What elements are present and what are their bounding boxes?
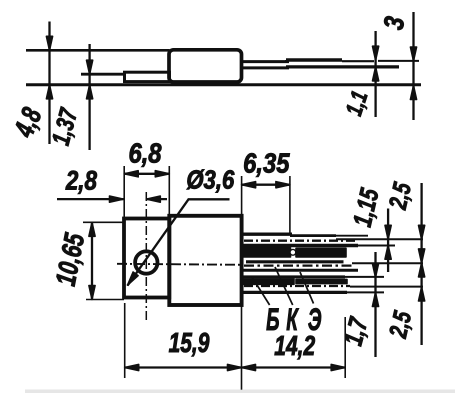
dimension 6,35 <box>242 176 290 233</box>
wire bottom extension line <box>358 245 395 247</box>
dimension 1,7 line <box>372 252 378 357</box>
svg-text:6,8: 6,8 <box>128 137 162 169</box>
svg-text:2,5: 2,5 <box>383 179 417 212</box>
lead 2 bottom line <box>242 269 358 272</box>
svg-text:6,35: 6,35 <box>243 147 290 179</box>
lead 3 bottom line <box>242 291 348 294</box>
svg-text:4,8: 4,8 <box>9 103 49 142</box>
dimension 1,37 line <box>87 44 93 150</box>
dimension 2,8 <box>57 196 167 202</box>
dimension 1,15 line <box>385 209 391 273</box>
svg-text:1,1: 1,1 <box>342 88 373 118</box>
front view: body outline <box>169 216 241 305</box>
horizontal centerline <box>117 264 243 265</box>
lead 2 centerline <box>244 264 352 266</box>
svg-text:15,9: 15,9 <box>169 328 210 359</box>
dimension 2,5 top line <box>419 183 425 345</box>
lead leader Э <box>300 272 314 304</box>
lead 2 centerline extension <box>352 262 423 264</box>
side view: left lead crimp <box>125 72 170 81</box>
side view: bottom seating line <box>26 83 421 86</box>
dimension 1,1 line <box>373 31 379 117</box>
side view: wire top extension line <box>378 60 419 62</box>
wire top extension line <box>336 238 423 240</box>
diameter leader Ø3,6 <box>128 199 230 285</box>
lead 3 flat top line <box>242 275 346 278</box>
lead 2 crimp dot <box>290 249 296 255</box>
lead 1 flat top line <box>242 232 293 235</box>
lead 1 wire top line <box>290 234 336 237</box>
lead 1 bottom line <box>242 244 359 248</box>
lead 1 top thin extension <box>334 235 368 237</box>
side view: right lead flat segment <box>242 62 290 68</box>
svg-text:10,65: 10,65 <box>51 230 91 288</box>
svg-text:3: 3 <box>378 14 411 32</box>
lead 2 upper line <box>246 260 344 263</box>
dimensions 15,9 and 14,2 lines <box>125 303 346 390</box>
side view: right lead wire segment <box>286 60 399 67</box>
side view: top extension line <box>26 49 170 52</box>
lead 3 wire solid band <box>296 279 347 283</box>
lead leader Б <box>252 277 270 305</box>
lead leader К <box>275 267 293 305</box>
hole vertical centerline <box>145 192 147 323</box>
dimension 3 line <box>410 12 416 120</box>
lead 3 bottom extension for 1,7 <box>347 291 384 293</box>
dimension 6,8 <box>124 166 169 219</box>
front view: mounting tab outline <box>124 219 169 298</box>
svg-text:2,5: 2,5 <box>383 308 417 341</box>
lead 3 flat solid band <box>242 279 295 284</box>
svg-text:1,7: 1,7 <box>338 314 374 349</box>
front view: mounting hole <box>135 251 157 273</box>
lead 2 wire solid band <box>296 248 346 257</box>
lead 3 top extension for 1,7 <box>345 276 384 278</box>
lead 3 centerline extension <box>350 286 423 288</box>
dimension 10,65 <box>83 222 124 299</box>
lead 2 flat solid band <box>242 248 291 257</box>
svg-text:2,8: 2,8 <box>65 167 97 196</box>
lead 3 centerline <box>244 285 350 287</box>
svg-text:1,37: 1,37 <box>46 104 83 148</box>
dimension 4,8 line <box>46 22 52 145</box>
side view: left lead thin line <box>81 73 126 76</box>
svg-text:1,15: 1,15 <box>347 185 384 230</box>
svg-text:14,2: 14,2 <box>274 331 315 362</box>
side view: body outline <box>169 50 242 82</box>
lead 1 centerline <box>244 240 357 242</box>
svg-text:Ø3,6: Ø3,6 <box>186 166 234 195</box>
